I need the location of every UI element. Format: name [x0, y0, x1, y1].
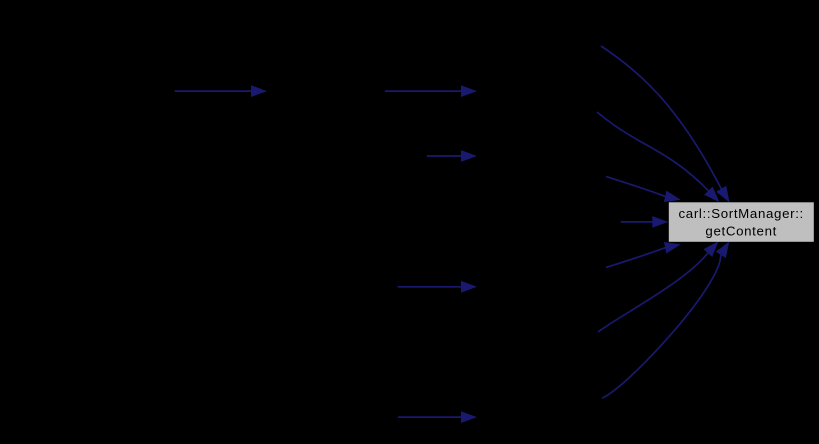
- wire: curved edge bottom-3 into getContent: [606, 242, 681, 268]
- wire: curved edge bottom-2 into getContent: [598, 241, 719, 332]
- wire: curved edge bottom-1 into getContent: [602, 241, 729, 398]
- svg-text:carl::SortManager::: carl::SortManager::: [678, 206, 803, 221]
- wire: edge col2-row1 to col3-row1 (hidden nodes): [385, 85, 477, 97]
- wire: curved edge top-2 into getContent: [597, 112, 720, 202]
- wire: curved edge top-3 into getContent: [606, 177, 681, 203]
- wire: edge col2-row3 to col3-row3 (hidden nodes): [398, 281, 477, 293]
- wire: edge col1-row1 to col2-row1 (hidden nodes): [175, 85, 267, 97]
- wire: curved edge top-1 into getContent: [601, 46, 730, 203]
- wire: edge col2-row4 to col3-row4 (hidden nodes): [398, 411, 477, 423]
- wire: edge col2-row2 to col3-row2 (hidden nodes): [427, 150, 477, 162]
- wire: edge from hidden middle node into getContent: [621, 216, 669, 228]
- node: carl::SortManager::getContent (highlighted): [669, 202, 814, 242]
- svg-text:getContent: getContent: [705, 223, 777, 238]
